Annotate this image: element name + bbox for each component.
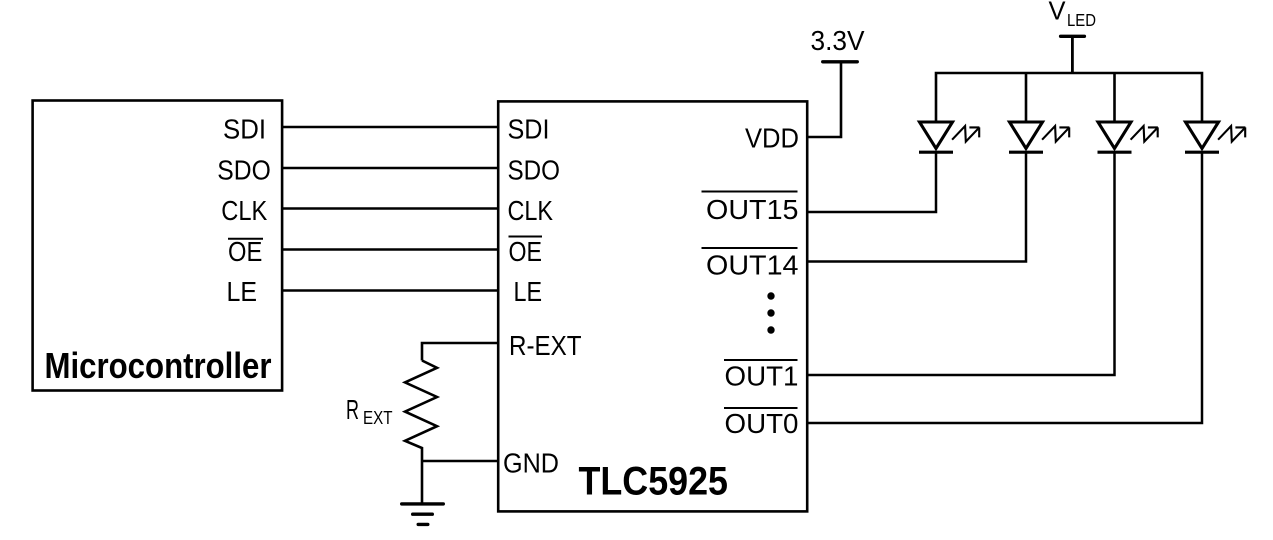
svg-text:3.3V: 3.3V: [811, 25, 865, 56]
svg-text:CLK: CLK: [221, 195, 267, 226]
svg-text:SDI: SDI: [223, 114, 266, 145]
svg-text:V: V: [1049, 0, 1066, 26]
svg-text:LE: LE: [514, 276, 543, 307]
svg-text:CLK: CLK: [508, 195, 554, 226]
svg-text:Microcontroller: Microcontroller: [45, 345, 272, 386]
svg-text:R-EXT: R-EXT: [509, 330, 582, 361]
svg-text:OUT14: OUT14: [706, 249, 799, 280]
svg-text:SDI: SDI: [508, 114, 550, 145]
svg-text:OE: OE: [228, 236, 262, 267]
svg-text:VDD: VDD: [745, 122, 799, 153]
svg-text:OUT15: OUT15: [706, 194, 799, 225]
svg-text:OUT0: OUT0: [725, 408, 799, 439]
svg-text:LE: LE: [227, 276, 258, 307]
svg-text:LED: LED: [1067, 10, 1096, 30]
svg-text:OE: OE: [509, 236, 543, 267]
svg-text:TLC5925: TLC5925: [579, 460, 729, 504]
svg-text:SDO: SDO: [508, 155, 561, 186]
svg-text:GND: GND: [503, 448, 559, 479]
svg-text:R: R: [346, 394, 359, 425]
svg-text:OUT1: OUT1: [725, 361, 799, 392]
svg-text:EXT: EXT: [363, 408, 393, 428]
svg-text:SDO: SDO: [217, 155, 270, 186]
